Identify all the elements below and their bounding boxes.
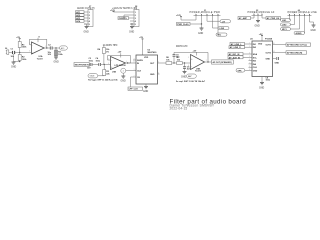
resistor R1 <box>18 42 27 53</box>
global label oval GAIN <box>88 74 104 78</box>
junction <box>131 23 132 24</box>
ground <box>84 27 89 34</box>
capacitor C3 <box>89 58 94 66</box>
svg-text:SDA: SDA <box>253 53 258 56</box>
ground <box>310 22 316 32</box>
junction <box>19 52 20 53</box>
left pins <box>249 43 258 73</box>
svg-text:GND: GND <box>143 91 148 93</box>
connector J7 analog out header <box>77 6 95 27</box>
connector ground wire <box>14 54 20 62</box>
capacitor C8 label <box>266 77 271 81</box>
svg-text:200Hz HPF: 200Hz HPF <box>106 45 119 47</box>
svg-text:TL072: TL072 <box>37 58 44 60</box>
power +12V <box>176 15 196 20</box>
svg-text:SPK: SPK <box>238 70 243 72</box>
power +5V for U3 <box>259 34 263 41</box>
svg-text:U1B: U1B <box>112 72 117 74</box>
svg-text:GAIN: GAIN <box>90 75 95 78</box>
power module AF section <box>248 10 275 21</box>
global label AF1 <box>76 11 85 14</box>
svg-text:MIC: MIC <box>218 35 222 37</box>
wire <box>92 64 99 66</box>
global label oval 1 <box>281 18 291 22</box>
wire <box>201 24 203 28</box>
global label box bottom <box>128 77 143 91</box>
op-amp U1A <box>29 36 47 60</box>
svg-text:LPF_CLK: LPF_CLK <box>129 89 139 91</box>
global label oval left <box>236 69 249 73</box>
feedback wire <box>174 53 208 63</box>
junction <box>46 47 47 48</box>
junction <box>127 62 128 63</box>
svg-text:OUT2: OUT2 <box>266 53 272 55</box>
ground <box>255 21 261 28</box>
svg-text:GND: GND <box>121 81 126 83</box>
svg-text:1%: 1% <box>106 51 109 53</box>
svg-text:AF RECORD (R): AF RECORD (R) <box>287 52 303 55</box>
power flag label <box>177 22 202 26</box>
global label box right 2 <box>286 51 307 55</box>
op-amp U1B <box>108 52 127 74</box>
svg-text:GND: GND <box>255 25 260 27</box>
svg-text:MIC/PHONE IN: MIC/PHONE IN <box>75 65 89 67</box>
svg-text:GND: GND <box>129 31 134 33</box>
ground <box>129 27 134 34</box>
connector J3 power module pwr <box>190 10 221 35</box>
capacitor C2 <box>48 45 53 56</box>
svg-text:LINE: LINE <box>220 28 225 30</box>
svg-text:AGND: AGND <box>296 32 302 35</box>
resistor R3 <box>55 48 64 57</box>
svg-text:CLK: CLK <box>253 67 258 69</box>
svg-text:AF_AUX_IN: AF_AUX_IN <box>229 56 241 59</box>
global label oval 3 <box>281 27 300 31</box>
svg-text:GND: GND <box>266 59 271 61</box>
svg-text:16: 16 <box>273 43 275 45</box>
svg-text:100n: 100n <box>266 80 271 82</box>
svg-text:GND: GND <box>275 63 280 65</box>
svg-text:SHDN: SHDN <box>137 60 143 62</box>
right pins <box>266 43 287 60</box>
svg-text:GND: GND <box>181 77 186 79</box>
capacitor C7 <box>275 57 280 65</box>
IC bottom wire to gnd <box>261 77 263 83</box>
svg-text:GND: GND <box>311 30 316 32</box>
svg-text:GND: GND <box>84 31 89 33</box>
svg-text:+5V: +5V <box>193 50 197 52</box>
svg-text:14: 14 <box>273 51 275 53</box>
wire <box>84 24 87 27</box>
svg-text:PWR_FLAG: PWR_FLAG <box>177 23 189 26</box>
feedback wire <box>108 56 131 64</box>
wire <box>15 52 20 54</box>
connector J8 +12V/+5V supply header <box>112 6 139 27</box>
resistor R2 <box>18 53 27 62</box>
connector J6 audio input <box>5 48 12 55</box>
op-amp U1C <box>188 50 207 72</box>
global label oval AF1 <box>60 46 68 50</box>
global label box left 4 <box>228 56 249 60</box>
junction <box>201 23 202 24</box>
wire <box>130 24 132 27</box>
svg-text:100n: 100n <box>89 60 94 62</box>
global label +5V <box>207 20 231 24</box>
global label oval 4 <box>294 31 305 35</box>
output wire <box>205 61 212 63</box>
wire IC bottom to gnd <box>145 84 147 87</box>
svg-text:CLK: CLK <box>137 71 142 73</box>
svg-text:GND: GND <box>259 87 264 89</box>
ground <box>259 83 264 90</box>
connector J5 power module line <box>288 9 318 33</box>
capacitor C6 <box>183 63 191 72</box>
svg-text:PT2258: PT2258 <box>265 39 273 41</box>
svg-text:AF OUT (SPEAKER): AF OUT (SPEAKER) <box>213 61 232 64</box>
svg-text:MAX7400: MAX7400 <box>148 51 158 54</box>
junction <box>184 62 185 63</box>
global label MIC <box>216 33 227 37</box>
capacitor C1 <box>11 49 15 59</box>
resistor R6 <box>166 57 177 64</box>
svg-text:TL072: TL072 <box>195 71 202 73</box>
svg-text:AF_PWR_EN: AF_PWR_EN <box>267 17 280 20</box>
junction <box>123 17 124 18</box>
power flag PWR <box>118 17 130 20</box>
ground <box>54 57 59 64</box>
svg-text:AF_LINE_R: AF_LINE_R <box>230 46 241 49</box>
resistor R5 <box>103 65 111 76</box>
junction <box>207 61 208 62</box>
resistor R7 <box>177 57 191 64</box>
feedback wire <box>30 39 47 48</box>
power +12V <box>110 10 130 12</box>
capacitor C4 <box>87 57 101 69</box>
svg-text:PWR_FL: PWR_FL <box>119 18 128 20</box>
output wire <box>126 62 137 64</box>
junction <box>104 64 105 65</box>
svg-text:+5V: +5V <box>118 52 122 54</box>
IC U2 MAX7400 <box>133 50 162 84</box>
wire <box>52 47 59 49</box>
IC U3 <box>250 39 273 77</box>
global label box left 3 <box>228 53 249 57</box>
global label box <box>262 17 281 21</box>
svg-text:GND: GND <box>11 66 16 68</box>
svg-text:2x expl. XHP 11 2k7 Rf 10k 4n7: 2x expl. XHP 11 2k7 Rf 10k 4n7 <box>176 80 206 83</box>
power +5V <box>16 37 20 42</box>
svg-text:LPF CLK IN: LPF CLK IN <box>115 65 127 67</box>
svg-text:+12V/+5V SUPPLY (J8): +12V/+5V SUPPLY (J8) <box>112 8 137 10</box>
ground <box>143 87 148 94</box>
ground <box>121 76 126 83</box>
global label box left 1 <box>230 42 249 46</box>
junction <box>55 47 56 48</box>
svg-text:POWER MODULE LINE: POWER MODULE LINE <box>288 12 318 14</box>
ground <box>198 28 204 35</box>
ground <box>11 62 16 68</box>
global label AF3 <box>76 17 85 20</box>
wire from U2 out <box>162 62 166 64</box>
ground <box>181 72 187 79</box>
global label oval 2k7 <box>187 74 197 78</box>
capacitor C5 <box>173 53 181 64</box>
junction <box>173 62 174 63</box>
power +5V for U2 <box>139 37 143 55</box>
wire <box>101 64 111 66</box>
svg-text:GND: GND <box>253 71 258 73</box>
global label box <box>238 17 254 21</box>
svg-text:VDD: VDD <box>258 43 263 45</box>
global label AF2 <box>76 14 85 17</box>
svg-text:GND: GND <box>150 74 155 76</box>
global label box right 1 <box>286 43 311 47</box>
svg-text:AF RECORD OUT (L): AF RECORD OUT (L) <box>287 44 307 47</box>
global label LINE <box>213 27 230 31</box>
global label MIC/PHONE IN <box>74 63 90 67</box>
global label AF4 <box>76 20 85 23</box>
svg-text:GND: GND <box>54 62 59 64</box>
svg-text:AF_AMP: AF_AMP <box>239 17 248 20</box>
output wire <box>45 47 51 49</box>
svg-text:GND: GND <box>198 33 203 35</box>
global label box left 2 <box>229 46 249 50</box>
test point LPF CLK <box>115 65 137 76</box>
svg-text:TLV appl. XHP 11 22k R pot 10k: TLV appl. XHP 11 22k R pot 10k <box>88 78 118 81</box>
global label oval 2 <box>281 23 295 27</box>
svg-text:OUT1: OUT1 <box>266 45 272 47</box>
svg-text:900Hz LPF: 900Hz LPF <box>176 46 188 48</box>
svg-text:VDD: VDD <box>144 57 149 59</box>
title block <box>170 98 247 110</box>
wire <box>124 15 130 18</box>
junction <box>19 61 20 62</box>
svg-text:2022-04-15: 2022-04-15 <box>170 107 188 111</box>
svg-text:100n: 100n <box>96 60 101 62</box>
wire to op-amp <box>20 52 31 54</box>
resistor R4 <box>98 45 111 65</box>
global label AF OUT SPEAKER <box>212 60 234 64</box>
